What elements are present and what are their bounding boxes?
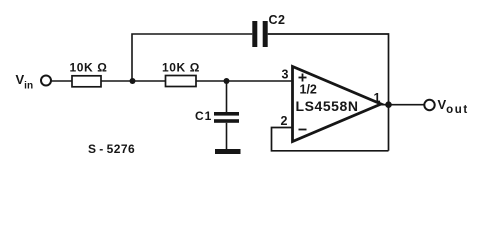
- wire R2 to op-amp + input through node B: [196, 80, 293, 82]
- wire Vin terminal to R1: [52, 80, 73, 82]
- resistor R1 10KΩ: [72, 76, 101, 87]
- node B junction dot: [224, 78, 230, 84]
- ground: [215, 149, 241, 154]
- node Vout output terminal: [424, 100, 434, 110]
- svg-text:10K Ω: 10K Ω: [162, 61, 200, 75]
- wire op-amp output to Vout terminal: [381, 104, 425, 106]
- capacitor C2: [252, 21, 267, 47]
- svg-text:2: 2: [281, 114, 288, 128]
- svg-text:S - 5276: S - 5276: [88, 142, 135, 156]
- svg-text:3: 3: [282, 68, 289, 82]
- wire R1 to R2 through node A: [101, 80, 166, 82]
- resistor R2 10KΩ: [166, 76, 197, 87]
- wire C1 to ground: [226, 123, 228, 150]
- wire feedback top line right segment (C2 to output branch, down through output node to bottom line): [268, 34, 389, 151]
- node output junction dot: [385, 101, 392, 108]
- wire node B down to C1: [226, 81, 228, 113]
- svg-text:C2: C2: [269, 13, 286, 27]
- capacitor C1: [214, 112, 239, 123]
- svg-text:10K Ω: 10K Ω: [70, 61, 108, 75]
- wire feedback from pin 2 to output node (left, down, bottom run): [272, 128, 389, 151]
- op-amp U1 triangle (1/2 LS4558N): [293, 67, 382, 142]
- node Vin input terminal: [41, 76, 51, 86]
- node A junction dot: [130, 78, 136, 84]
- svg-text:1/2: 1/2: [300, 83, 317, 97]
- svg-text:C1: C1: [195, 109, 212, 123]
- svg-text:1: 1: [374, 91, 381, 105]
- op-amp + input marker: [299, 74, 307, 82]
- wire node A up to C2 feedback line (with corner): [132, 34, 252, 81]
- op-amp - input marker: [299, 129, 307, 131]
- svg-text:LS4558N: LS4558N: [296, 98, 359, 114]
